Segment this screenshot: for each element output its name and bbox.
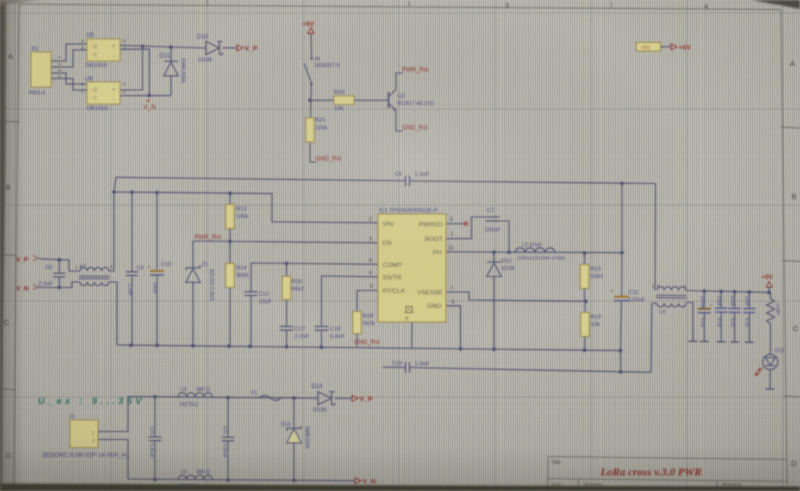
capacitor C12 12pF xyxy=(245,291,258,293)
wire choke L3 bottom out, down to GND rail xyxy=(109,282,117,345)
resistor R19 10k xyxy=(584,301,586,312)
capacitor C10 33uF (polarized) xyxy=(156,193,158,272)
resistor R15 52k3 xyxy=(584,253,586,265)
op IC1 TPS54260DGQE-P xyxy=(378,214,446,322)
capacitor C7 100nF xyxy=(486,216,500,218)
capacitor C6 2.2nF xyxy=(58,260,60,274)
ground bar C16 xyxy=(745,341,754,343)
capacitor C8 1.0nF xyxy=(405,176,407,187)
LED emission arrows xyxy=(755,367,763,375)
wire R21 to GND_Rst xyxy=(310,142,316,162)
resistor R16 66k1 xyxy=(286,263,288,276)
bridge rectifier U5 xyxy=(87,39,120,61)
catch diode D12 SS36 xyxy=(493,252,495,262)
wire Vout branch through C11 xyxy=(621,183,623,252)
wire node to R20 xyxy=(310,99,334,101)
ground bar C15 xyxy=(730,341,739,343)
ground bar LED xyxy=(766,388,775,390)
wire VIN rail to IC pin 2 xyxy=(114,192,378,223)
capacitor C20 0.33uF xyxy=(154,397,156,437)
wire RT/CLK net (pin 5 to R18) xyxy=(357,291,378,312)
screen bezel bottom edge xyxy=(0,484,800,491)
wire +5V output rail xyxy=(686,291,769,293)
wire J1 to input bus xyxy=(110,397,128,432)
capacitor C17 2.2nF xyxy=(280,326,294,328)
port +5V top right xyxy=(671,44,677,50)
wire V_P node: U5.1 to D10, branch to U6.1 xyxy=(120,45,206,48)
wire BOOT net to C7 xyxy=(446,217,486,239)
TVS diode D11 SMAJ58A xyxy=(170,47,172,61)
wire choke L3 top out, up to C8 line and VIN rail xyxy=(109,177,116,271)
schottky diode D10 SS36 xyxy=(206,42,220,55)
wire C19 line corner up to L4 bottom input xyxy=(650,303,653,372)
capacitor C9 2.2nF xyxy=(131,192,133,272)
wire PWR_Rst net (Z1 top to EN pin 3) xyxy=(193,241,378,243)
wire C19 line and link to GND rail xyxy=(383,366,406,368)
wire SS/TR net (pin 4 to C18) xyxy=(322,276,379,327)
wire Vout down to L4 input xyxy=(654,184,657,291)
schottky diode D14 SS36 xyxy=(318,392,332,405)
wire +5V to switch J4 xyxy=(310,34,313,58)
inductor L2 47uH xyxy=(515,248,555,253)
wire V_N entry to choke L3 xyxy=(38,282,80,288)
wire V_N node: U5.2 down to U6.2 and D11 bottom xyxy=(120,49,171,95)
zone divider ticks left xyxy=(0,121,20,122)
ground bar (L4 return) xyxy=(689,340,698,342)
wire X1 pin2 to U5 pin3 xyxy=(57,50,87,67)
wire L4 bottom out to gnd bar xyxy=(686,303,693,342)
capacitor C11 120uF (polarized) xyxy=(614,296,629,298)
LED D13 xyxy=(763,354,778,369)
capacitor C21 0.33uF xyxy=(227,398,229,438)
resistor R13 105k xyxy=(229,193,231,204)
wire V_P entry to choke L3 xyxy=(39,259,80,271)
ground bar C13 xyxy=(700,341,709,343)
ground bar C14 xyxy=(717,341,726,343)
wire switch to R20/R21 node xyxy=(310,84,313,117)
common-mode choke L4 xyxy=(657,287,686,291)
capacitor C18 6.8nF xyxy=(315,326,329,328)
IC1 thermal pad symbol and pin 11 xyxy=(405,307,414,313)
wire GND rail xyxy=(117,345,622,351)
switch J4 1825027-5 xyxy=(310,57,313,60)
zone divider ticks right xyxy=(781,127,800,128)
connector J1 xyxy=(70,420,98,448)
port V_P lower xyxy=(352,395,358,401)
wire lower bottom line (V_N) xyxy=(128,479,355,481)
bridge rectifier U6 xyxy=(87,82,120,104)
wire C8 snubber line (V_P to Vout) xyxy=(116,177,406,181)
title block frame xyxy=(548,457,787,460)
no-ERC cross at PWRGD pin 6 xyxy=(446,223,466,225)
wire +5V box to port xyxy=(661,46,672,48)
resistor R14 96k5 xyxy=(229,241,231,263)
capacitor C16 10uF xyxy=(748,292,750,309)
wire X1 pin3 to U6 pin4 xyxy=(57,73,87,84)
wire PH net (pin 10 to L2 and Vout) xyxy=(446,251,622,254)
power net box +5V xyxy=(637,43,661,52)
transistor Q2 BC817-40,215 xyxy=(388,92,390,108)
inductor L6 7427512 xyxy=(178,475,212,479)
wire lower top line (to D14) xyxy=(128,397,318,399)
zener Z1 BZV55-C4V3 xyxy=(186,265,200,270)
capacitor C13 220uF (polarized) xyxy=(703,291,705,309)
wire LED to ground xyxy=(769,370,771,389)
resistor R18 562k xyxy=(353,312,361,334)
wire X1 pin1 to U5 pin4 xyxy=(57,44,87,61)
resistor R12 (zigzag) xyxy=(770,292,772,299)
zone divider ticks top xyxy=(206,0,209,6)
wire X1 pin4 to U6 pin3 xyxy=(57,79,87,91)
resistor R21 100k xyxy=(306,118,314,142)
dark wedge beyond sheet top-right corner xyxy=(751,0,800,9)
resistor R20 10k xyxy=(334,96,354,104)
wire COMP net (pin 8 to R16 top and C12) xyxy=(251,263,378,292)
inductor L5 7427512 xyxy=(178,393,212,397)
screen bezel left edge xyxy=(0,0,7,491)
TVS diode D15 SMBJ33A xyxy=(293,398,295,428)
capacitor C19 1.0nF xyxy=(405,362,407,373)
port V_N lower xyxy=(355,478,361,484)
capacitor C15 22uF xyxy=(734,292,736,309)
wire GND pin 9 to rail xyxy=(446,306,461,349)
wire D10 to V_P port xyxy=(223,47,238,49)
wire VSENSE feedback net xyxy=(446,292,587,301)
wire R20 to Q2 base xyxy=(354,99,388,101)
wire D14 to V_P port xyxy=(335,397,353,399)
common-mode choke L3 xyxy=(80,267,109,271)
wire C7 to PH node xyxy=(500,221,510,252)
connector X1 xyxy=(31,52,51,87)
port V_P top xyxy=(237,45,243,51)
dark shade top-left corner xyxy=(0,0,40,5)
capacitor C14 10uF xyxy=(720,291,722,308)
